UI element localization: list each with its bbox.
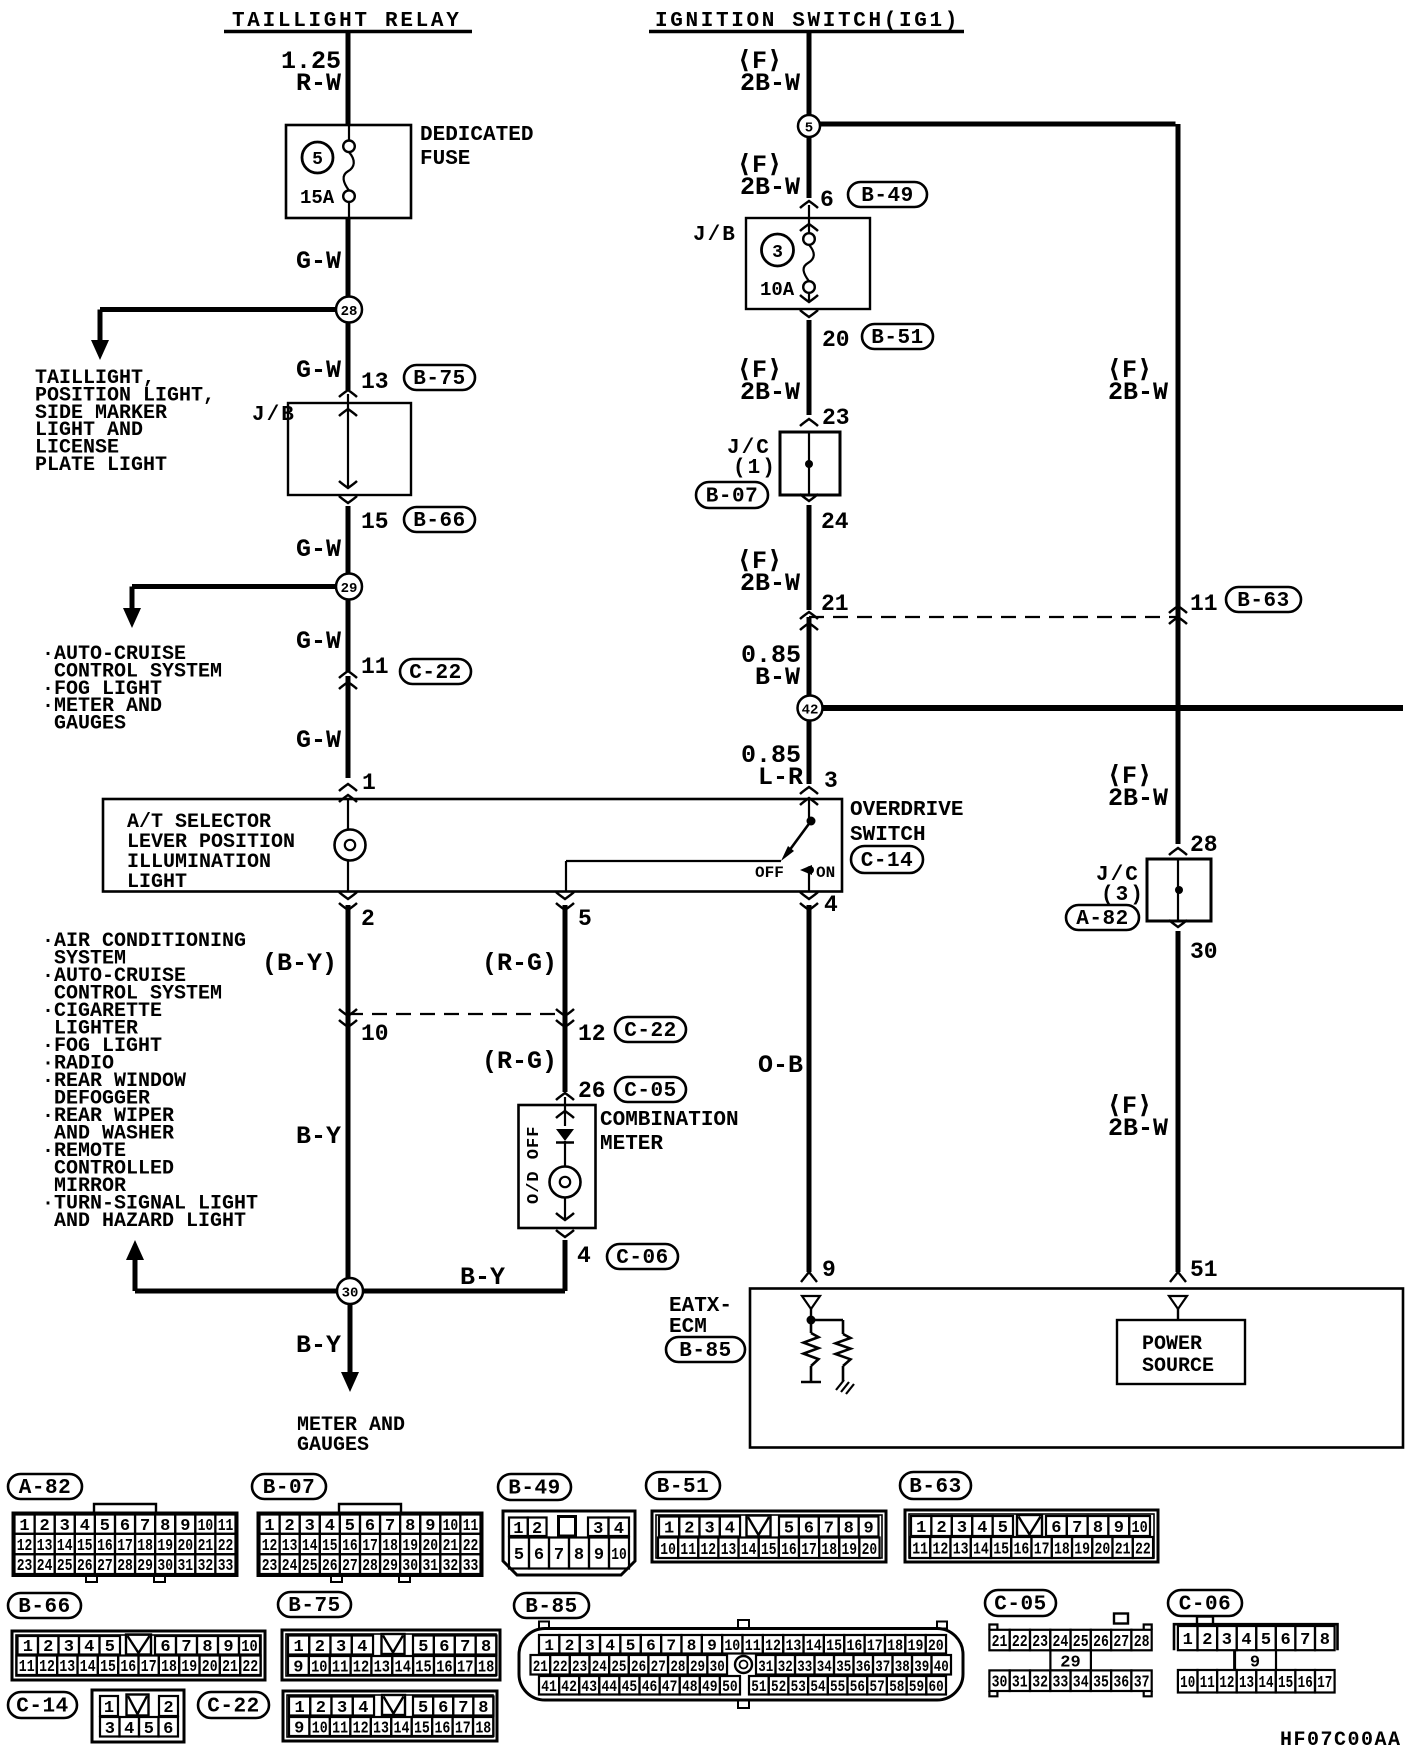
connector B-63 pinout [905,1510,1158,1562]
svg-text:17: 17 [457,1659,473,1678]
svg-text:55: 55 [830,1678,845,1696]
svg-text:27: 27 [1113,1633,1129,1652]
svg-text:5: 5 [578,906,592,932]
wire pin 21 to junction 42 [807,617,812,708]
svg-text:B-51: B-51 [657,1476,709,1499]
svg-text:7: 7 [824,1520,834,1539]
svg-text:18: 18 [161,1658,177,1677]
svg-text:24: 24 [37,1557,53,1576]
svg-text:29: 29 [137,1557,153,1576]
svg-text:15: 15 [361,509,389,535]
svg-text:6: 6 [1051,1519,1061,1538]
connector label C-22 [615,1017,686,1043]
svg-text:27: 27 [97,1557,113,1576]
svg-text:59: 59 [909,1678,924,1696]
wire OFF contact to pin 5 [566,861,781,891]
pin 4 below switch [800,892,838,918]
svg-text:11: 11 [19,1658,35,1677]
wire heavy junction 42 to right edge [822,705,1403,711]
svg-text:B-66: B-66 [413,510,465,533]
svg-text:5: 5 [784,1520,794,1539]
svg-text:2B-W: 2B-W [740,173,800,202]
svg-text:1: 1 [104,1699,114,1718]
svg-text:4: 4 [357,1638,367,1657]
svg-text:5: 5 [312,150,323,170]
svg-text:10: 10 [361,1021,389,1047]
svg-text:8: 8 [687,1637,697,1655]
svg-text:32: 32 [1032,1674,1048,1693]
svg-text:5: 5 [805,121,813,137]
svg-text:21: 21 [1115,1541,1131,1560]
label 0.85 B-W [741,641,801,692]
svg-text:36: 36 [856,1658,871,1676]
svg-text:24: 24 [282,1557,298,1576]
svg-text:18: 18 [478,1659,494,1678]
svg-text:3: 3 [585,1637,595,1655]
connector C-14 pinout [92,1690,184,1742]
svg-text:27: 27 [342,1557,358,1576]
svg-text:14: 14 [394,1720,410,1739]
svg-text:22: 22 [1012,1633,1028,1652]
svg-text:G-W: G-W [296,627,341,656]
svg-text:J/B: J/B [252,404,296,427]
svg-text:14: 14 [741,1541,757,1560]
svg-text:9: 9 [863,1520,873,1539]
svg-text:2: 2 [43,1638,53,1657]
svg-text:46: 46 [642,1678,658,1696]
svg-text:20: 20 [928,1637,944,1655]
svg-text:29: 29 [341,581,358,597]
svg-text:23: 23 [17,1557,33,1576]
node ON contact [800,865,814,891]
svg-text:33: 33 [463,1557,479,1576]
lamp A/T selector illumination [335,799,366,891]
svg-text:21: 21 [222,1658,238,1677]
svg-text:31: 31 [423,1557,439,1576]
connector B-85 pinout [519,1620,963,1708]
svg-text:A-82: A-82 [19,1477,71,1500]
wire junction 30 to meter and gauges [341,1291,359,1392]
svg-text:28: 28 [1134,1633,1150,1652]
wire branch junction 29 to accessories [123,587,340,629]
wire dashed pin10 to pin12 [348,1013,565,1015]
svg-text:1: 1 [916,1519,926,1538]
svg-text:35: 35 [836,1658,851,1676]
svg-text:16: 16 [436,1659,452,1678]
svg-text:50: 50 [722,1678,738,1696]
svg-text:IGNITION SWITCH(IG1): IGNITION SWITCH(IG1) [655,10,960,33]
combination meter box [519,1097,596,1228]
svg-text:2B-W: 2B-W [740,69,800,98]
svg-text:2: 2 [936,1519,946,1538]
svg-text:4: 4 [577,1243,591,1269]
svg-text:3: 3 [772,243,783,263]
wire J/B to J/C(1) [807,320,812,415]
svg-text:6: 6 [804,1520,814,1539]
connector label C-06 [607,1244,678,1270]
svg-text:23: 23 [262,1557,278,1576]
svg-text:(R-G): (R-G) [482,949,557,978]
connector label C-22 [400,659,471,685]
svg-text:3: 3 [64,1638,74,1657]
svg-text:2B-W: 2B-W [1108,378,1168,407]
connector label C-06 pinout [1168,1590,1242,1617]
svg-text:9: 9 [594,1546,604,1565]
svg-text:3: 3 [593,1520,603,1539]
svg-text:7: 7 [666,1637,676,1655]
svg-text:54: 54 [810,1678,826,1696]
junction 29 [336,574,362,600]
connector label C-14 [851,846,923,873]
pin 4 below meter [556,1230,591,1269]
label (F) 2B-W [737,47,800,98]
svg-text:3: 3 [1222,1631,1232,1650]
connector C-05 pinout [989,1614,1151,1697]
svg-text:10: 10 [1180,1674,1195,1693]
svg-text:18: 18 [475,1720,491,1739]
pin 3 [800,768,838,805]
connector B-07 pinout [258,1504,482,1582]
svg-text:16: 16 [846,1637,862,1655]
connector B-75 pinout [282,1630,500,1680]
connector label B-49 pinout [498,1474,571,1501]
svg-text:9: 9 [707,1637,717,1655]
svg-text:11: 11 [1190,591,1218,617]
svg-text:2: 2 [532,1520,542,1539]
svg-text:1: 1 [544,1637,554,1655]
svg-text:28: 28 [670,1658,685,1676]
svg-text:32: 32 [778,1658,793,1676]
svg-text:2: 2 [316,1699,326,1718]
svg-text:10: 10 [660,1541,676,1560]
svg-text:29: 29 [690,1658,705,1676]
svg-text:25: 25 [57,1557,73,1576]
svg-text:13: 13 [373,1720,389,1739]
wire pin 4 to EATX pin 9 [807,905,812,1272]
svg-text:12: 12 [578,1021,606,1047]
svg-text:8: 8 [1320,1631,1330,1650]
svg-text:26: 26 [1093,1633,1109,1652]
label (F) 2B-W right mid [1107,762,1168,813]
svg-text:15A: 15A [300,187,335,209]
svg-text:7: 7 [1072,1519,1082,1538]
label J/C (3) [1096,864,1145,907]
svg-text:2: 2 [565,1637,575,1655]
svg-text:14: 14 [1258,1674,1273,1693]
pin 51 [1170,1257,1218,1283]
connector label B-66 [404,507,475,533]
svg-text:47: 47 [662,1678,678,1696]
svg-text:16: 16 [1298,1674,1313,1693]
svg-text:L-R: L-R [758,763,803,792]
svg-text:12: 12 [353,1720,369,1739]
svg-text:4: 4 [977,1519,987,1538]
svg-text:10: 10 [611,1546,627,1565]
svg-text:26: 26 [322,1557,338,1576]
svg-text:33: 33 [218,1557,234,1576]
svg-text:2: 2 [315,1638,325,1657]
svg-text:11: 11 [1200,1674,1215,1693]
svg-text:28: 28 [117,1557,133,1576]
label 0.85 L-R [741,741,803,792]
wire branch arrow to accessory list [126,1240,350,1291]
pin 28 [1169,832,1218,858]
svg-text:15: 15 [100,1658,116,1677]
svg-text:(1): (1) [733,457,777,480]
svg-text:20: 20 [202,1658,218,1677]
svg-text:G-W: G-W [296,247,341,276]
svg-text:1: 1 [294,1699,304,1718]
svg-text:J/B: J/B [693,224,737,247]
svg-text:34: 34 [817,1658,832,1676]
svg-text:18: 18 [821,1541,837,1560]
svg-text:16: 16 [120,1658,136,1677]
connector label C-05 [615,1077,686,1103]
svg-text:25: 25 [611,1658,626,1676]
connector label B-75 [404,365,475,391]
svg-text:O-B: O-B [758,1051,803,1080]
svg-text:6: 6 [163,1720,173,1739]
svg-text:28: 28 [1190,832,1218,858]
svg-text:10: 10 [724,1637,740,1655]
svg-text:5: 5 [418,1699,428,1718]
label (F) 2B-W [737,547,800,598]
svg-text:B-Y: B-Y [296,1331,341,1360]
connector A-82 pinout [13,1504,237,1582]
connector B-66 pinout [12,1631,265,1680]
svg-text:30: 30 [157,1557,173,1576]
svg-text:3: 3 [824,768,838,794]
svg-text:4: 4 [358,1699,368,1718]
svg-text:30: 30 [402,1557,418,1576]
label (F) 2B-W right upper [1107,356,1168,407]
wire J/B pin 15 to junction 29 [346,506,351,586]
connector label B-66 pinout [8,1593,81,1619]
svg-text:B-49: B-49 [508,1478,560,1501]
svg-text:4: 4 [124,1720,134,1739]
wire fuse to junction 28 [346,218,351,309]
svg-text:15: 15 [826,1637,842,1655]
svg-text:13: 13 [374,1659,390,1678]
svg-text:5: 5 [514,1546,524,1565]
junction connector J/C(1) [780,432,840,501]
svg-text:3: 3 [704,1520,714,1539]
svg-text:2: 2 [163,1699,173,1718]
svg-text:G-W: G-W [296,356,341,385]
svg-text:42: 42 [802,703,819,719]
wire meter to junction 30 [350,1240,565,1291]
connector label C-22 pinout [198,1692,269,1719]
svg-text:26: 26 [631,1658,646,1676]
svg-text:31: 31 [758,1658,773,1676]
svg-text:28: 28 [362,1557,378,1576]
svg-text:9: 9 [822,1257,836,1283]
svg-text:22: 22 [1135,1541,1151,1560]
power source box [1117,1320,1245,1384]
svg-text:20: 20 [1095,1541,1111,1560]
svg-text:18: 18 [887,1637,903,1655]
svg-text:25: 25 [1073,1633,1089,1652]
svg-text:6: 6 [1280,1631,1290,1650]
svg-text:5: 5 [626,1637,636,1655]
wire pin 11 to pin 1 [346,676,351,778]
svg-text:17: 17 [141,1658,157,1677]
svg-text:39: 39 [914,1658,929,1676]
svg-text:(3): (3) [1101,884,1145,907]
junction block J/B fuse 3 10A [746,201,870,317]
svg-text:7: 7 [458,1699,468,1718]
svg-text:14: 14 [80,1658,96,1677]
svg-text:3: 3 [105,1720,115,1739]
pin 1 [339,770,376,802]
node TAILLIGHT RELAY title [224,10,472,33]
svg-text:C-05: C-05 [994,1594,1046,1617]
svg-text:22: 22 [552,1658,567,1676]
connector label B-07 pinout [252,1474,326,1500]
svg-text:11: 11 [912,1541,928,1560]
svg-text:19: 19 [842,1541,858,1560]
svg-text:10: 10 [1131,1519,1147,1538]
connector C-06 pinout [1174,1617,1338,1694]
svg-text:33: 33 [797,1658,812,1676]
connector B-49 pinout [503,1511,635,1575]
svg-text:B-85: B-85 [525,1596,577,1619]
svg-text:C-05: C-05 [624,1080,676,1103]
wire junction 28 to J/B pin 13 [346,309,351,390]
svg-text:G-W: G-W [296,726,341,755]
svg-text:11: 11 [332,1659,348,1678]
svg-text:5: 5 [144,1720,154,1739]
junction 5 [798,115,820,137]
svg-text:37: 37 [875,1658,890,1676]
svg-text:R-W: R-W [296,69,341,98]
connector B-51 pinout [652,1511,886,1562]
svg-text:C-06: C-06 [1179,1594,1231,1617]
svg-text:B-66: B-66 [18,1596,70,1619]
svg-text:B-W: B-W [755,663,800,692]
svg-text:37: 37 [1134,1674,1150,1693]
svg-text:31: 31 [1012,1674,1028,1693]
resistor pull-down 2 with ground [811,1320,851,1381]
svg-text:B-Y: B-Y [296,1122,341,1151]
svg-text:12: 12 [39,1658,55,1677]
svg-text:11: 11 [745,1637,761,1655]
svg-text:1: 1 [664,1520,674,1539]
svg-text:11: 11 [332,1720,348,1739]
svg-text:B-75: B-75 [288,1595,340,1618]
wire junction 42 to overdrive switch pin 3 [807,715,812,784]
svg-text:7: 7 [460,1638,470,1657]
svg-text:C-14: C-14 [861,850,913,873]
svg-text:15: 15 [414,1720,430,1739]
svg-text:51: 51 [1190,1257,1218,1283]
svg-text:C-22: C-22 [624,1020,676,1043]
svg-text:32: 32 [198,1557,214,1576]
svg-text:41: 41 [541,1678,557,1696]
wire pin 2 to junction 30 [346,905,351,1291]
svg-text:B-63: B-63 [909,1476,961,1499]
svg-text:9: 9 [1114,1519,1124,1538]
svg-text:4: 4 [614,1520,624,1539]
svg-text:9: 9 [223,1638,233,1657]
svg-text:32: 32 [443,1557,459,1576]
svg-text:38: 38 [895,1658,910,1676]
svg-text:27: 27 [651,1658,666,1676]
svg-text:C-22: C-22 [207,1696,259,1719]
pin 11 far right [1169,591,1218,624]
svg-text:(R-G): (R-G) [482,1047,557,1076]
svg-text:2B-W: 2B-W [1108,784,1168,813]
svg-text:40: 40 [934,1658,949,1676]
svg-text:43: 43 [581,1678,597,1696]
svg-text:21: 21 [533,1658,548,1676]
svg-text:8: 8 [481,1638,491,1657]
svg-text:1: 1 [362,770,376,796]
svg-text:34: 34 [1073,1674,1089,1693]
svg-text:12: 12 [933,1541,949,1560]
svg-text:10: 10 [312,1720,328,1739]
svg-text:29: 29 [382,1557,398,1576]
svg-text:26: 26 [77,1557,93,1576]
svg-text:33: 33 [1053,1674,1069,1693]
connector label A-82 [1066,905,1139,931]
connector label B-63 [1226,587,1301,613]
svg-text:24: 24 [1053,1633,1069,1652]
svg-text:57: 57 [870,1678,885,1696]
pin 10 crossing C-22 dashed [339,1009,389,1047]
lamp O/D OFF [550,1167,581,1221]
svg-text:7: 7 [1300,1631,1310,1650]
svg-text:30: 30 [710,1658,725,1676]
svg-text:42: 42 [561,1678,577,1696]
svg-text:23: 23 [572,1658,587,1676]
svg-text:B-85: B-85 [679,1340,731,1363]
wire branch junction 5 to far right [809,124,1178,612]
svg-text:8: 8 [844,1520,854,1539]
svg-text:B-51: B-51 [871,327,923,350]
connector label A-82 pinout [8,1474,82,1500]
svg-text:17: 17 [801,1541,817,1560]
node ECM pin 9 input [802,1296,820,1325]
svg-text:A-82: A-82 [1076,908,1128,931]
wire overdrive switch pin 3 entry [808,799,810,818]
svg-text:45: 45 [622,1678,638,1696]
connector C-22 pinout [283,1691,497,1741]
label (F) 2B-W [737,356,800,407]
svg-text:48: 48 [682,1678,698,1696]
svg-text:15: 15 [993,1541,1009,1560]
svg-text:2B-W: 2B-W [740,569,800,598]
ground chassis [836,1380,854,1394]
svg-text:24: 24 [821,509,849,535]
value label 1.25 R-W [281,47,341,98]
svg-text:13: 13 [721,1541,737,1560]
pin 23 [800,405,850,431]
svg-text:19: 19 [181,1658,197,1677]
svg-text:7: 7 [554,1546,564,1565]
svg-text:12: 12 [765,1637,781,1655]
junction connector J/C(3) [1147,859,1211,927]
svg-text:3: 3 [336,1638,346,1657]
connector label B-07 [696,482,768,509]
svg-text:6: 6 [820,187,834,213]
svg-text:60: 60 [929,1678,944,1696]
svg-text:30: 30 [1190,939,1218,965]
svg-text:O/D OFF: O/D OFF [525,1126,544,1204]
svg-text:31: 31 [178,1557,194,1576]
svg-text:8: 8 [202,1638,212,1657]
svg-text:13: 13 [1239,1674,1254,1693]
